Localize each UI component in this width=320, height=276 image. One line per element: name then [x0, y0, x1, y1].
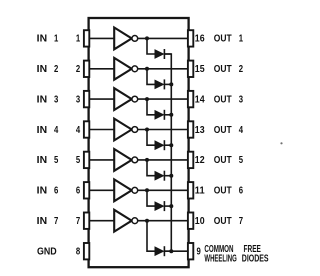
pin 7 bracket (left) [84, 213, 89, 229]
svg-text:1: 1 [54, 34, 59, 45]
junction node on OUT 3 wire [145, 97, 149, 101]
inverter (darlington driver) U4 [114, 119, 138, 141]
svg-text:2: 2 [239, 64, 244, 75]
wire: node down to diode D3 anode [147, 99, 155, 115]
pin number 13 label [195, 125, 205, 136]
wire: node down to diode D5 anode [147, 160, 155, 176]
svg-text:OUT: OUT [214, 64, 232, 75]
pin 13 bracket (right) [188, 121, 193, 137]
pin 12 bracket (right) [188, 152, 193, 168]
junction node on OUT 6 wire [145, 188, 149, 192]
wire: D5 cathode to common bus [164, 175, 171, 177]
wire: U6 output to pin 11 [138, 189, 189, 191]
svg-text:3: 3 [76, 94, 81, 105]
svg-text:14: 14 [195, 94, 205, 105]
svg-text:4: 4 [76, 125, 81, 136]
inverter (darlington driver) U1 [114, 28, 138, 50]
net label OUT 1 [214, 34, 244, 45]
wire: U1 output to pin 16 [138, 37, 189, 39]
junction node on OUT 2 wire [145, 67, 149, 71]
wire: D7 cathode / bus to pin 9 [164, 250, 188, 252]
inverter (darlington driver) U6 [114, 179, 138, 201]
svg-text:OUT: OUT [214, 216, 232, 227]
svg-text:OUT: OUT [214, 34, 232, 45]
net label OUT 5 [214, 155, 244, 166]
svg-text:1: 1 [239, 34, 244, 45]
pin number 7 label [76, 216, 81, 227]
net label IN 3 [37, 94, 59, 105]
wire: D7 cathode to common bus [164, 250, 171, 252]
wire: node down to diode D4 anode [147, 130, 155, 146]
junction node on common bus at D3 [169, 113, 173, 117]
pin number 10 label [195, 216, 205, 227]
wire: pin 6 to inverter U6 input [89, 189, 115, 191]
wire: U2 output to pin 15 [138, 68, 189, 70]
wire: U5 output to pin 12 [138, 159, 189, 161]
pin number 16 label [195, 34, 205, 45]
pin 9 bracket (right) [188, 243, 193, 259]
net label IN 1 [37, 34, 59, 45]
wire: D1 cathode to common bus [164, 53, 171, 55]
svg-text:4: 4 [239, 125, 244, 136]
freewheeling diode D7 [155, 246, 164, 256]
junction node on common bus at D5 [169, 174, 173, 178]
pin 3 bracket (left) [84, 91, 89, 107]
freewheeling diode D1 [155, 49, 164, 59]
svg-text:6: 6 [239, 186, 244, 197]
inverter (darlington driver) U2 [114, 58, 138, 80]
net label OUT 4 [214, 125, 244, 136]
pin number 11 label [195, 186, 205, 197]
pin 5 bracket (left) [84, 152, 89, 168]
scan speck [280, 142, 282, 144]
wire: D2 cathode to common bus [164, 83, 171, 85]
IC body outline U1 (DIP-16) [89, 18, 189, 267]
svg-text:9: 9 [197, 247, 202, 258]
wire: node down to diode D6 anode [147, 190, 155, 206]
svg-text:2: 2 [76, 64, 81, 75]
net label OUT 7 [214, 216, 244, 227]
net label IN 5 [37, 155, 59, 166]
svg-text:7: 7 [54, 216, 59, 227]
pin 6 bracket (left) [84, 182, 89, 198]
pin 10 bracket (right) [188, 213, 193, 229]
junction node on common bus at D2 [169, 82, 173, 86]
junction node on common bus at D4 [169, 143, 173, 147]
net label IN 2 [37, 64, 59, 75]
svg-text:15: 15 [195, 64, 205, 75]
svg-text:11: 11 [195, 186, 205, 197]
junction node on OUT 1 wire [145, 36, 149, 40]
svg-text:3: 3 [239, 94, 244, 105]
pin number 5 label [76, 155, 81, 166]
pin number 2 label [76, 64, 81, 75]
wire: pin 4 to inverter U4 input [89, 129, 115, 131]
freewheeling diode D6 [155, 201, 164, 211]
junction node on OUT 5 wire [145, 158, 149, 162]
wire: D3 cathode to common bus [164, 114, 171, 116]
pin number 9 label [197, 247, 202, 258]
wire: pin 7 to inverter U7 input [89, 220, 115, 222]
svg-text:5: 5 [54, 155, 59, 166]
wire: node down to diode D1 anode [147, 38, 155, 54]
pin number 4 label [76, 125, 81, 136]
svg-text:16: 16 [195, 34, 205, 45]
pin number 3 label [76, 94, 81, 105]
net label OUT 6 [214, 186, 244, 197]
svg-text:10: 10 [195, 216, 205, 227]
wire: U7 output to pin 10 [138, 220, 189, 222]
wire: node down to diode D7 anode [147, 221, 155, 252]
inverter (darlington driver) U5 [114, 149, 138, 171]
freewheeling diode D5 [155, 171, 164, 181]
net label IN 7 [37, 216, 59, 227]
svg-text:IN: IN [37, 94, 47, 105]
pin 15 bracket (right) [188, 61, 193, 77]
pin 16 bracket (right) [188, 30, 193, 46]
pin 8 bracket (left) [84, 243, 89, 259]
svg-text:6: 6 [54, 186, 59, 197]
pin 2 bracket (left) [84, 61, 89, 77]
wire: pin 2 to inverter U2 input [89, 68, 115, 70]
net label GND [37, 247, 57, 258]
svg-text:IN: IN [37, 125, 47, 136]
pin 4 bracket (left) [84, 121, 89, 137]
freewheeling diode D4 [155, 140, 164, 150]
svg-text:OUT: OUT [214, 155, 232, 166]
svg-text:8: 8 [76, 247, 81, 258]
wire: D4 cathode to common bus [164, 144, 171, 146]
junction node: bus to pin 9 wire [169, 249, 173, 253]
svg-text:4: 4 [54, 125, 59, 136]
pin 11 bracket (right) [188, 182, 193, 198]
net label IN 4 [37, 125, 59, 136]
wire: common freewheeling-diode bus (vertical) [164, 54, 171, 251]
svg-text:12: 12 [195, 155, 205, 166]
svg-text:6: 6 [76, 186, 81, 197]
pin number 14 label [195, 94, 205, 105]
junction node on OUT 7 wire [145, 219, 149, 223]
svg-text:7: 7 [239, 216, 244, 227]
svg-text:OUT: OUT [214, 125, 232, 136]
freewheeling diode D2 [155, 79, 164, 89]
net label OUT 3 [214, 94, 244, 105]
net label IN 6 [37, 186, 59, 197]
inverter (darlington driver) U3 [114, 88, 138, 110]
svg-text:IN: IN [37, 186, 47, 197]
net label COMMON FREE WHEELING DIODES [204, 244, 268, 264]
wire: U3 output to pin 14 [138, 98, 189, 100]
wire: pin 1 to inverter U1 input [89, 37, 115, 39]
net label OUT 2 [214, 64, 244, 75]
svg-text:3: 3 [54, 94, 59, 105]
wire: U4 output to pin 13 [138, 129, 189, 131]
freewheeling diode D3 [155, 110, 164, 120]
pin number 8 label [76, 247, 81, 258]
svg-text:GND: GND [37, 247, 57, 258]
wire: D6 cathode to common bus [164, 205, 171, 207]
svg-text:IN: IN [37, 64, 47, 75]
pin number 1 label [76, 34, 81, 45]
svg-text:1: 1 [76, 34, 81, 45]
svg-text:7: 7 [76, 216, 81, 227]
svg-text:IN: IN [37, 155, 47, 166]
junction node on OUT 4 wire [145, 128, 149, 132]
pin number 15 label [195, 64, 205, 75]
svg-text:13: 13 [195, 125, 205, 136]
pin 1 bracket (left) [84, 30, 89, 46]
svg-text:WHEELING: WHEELING [204, 253, 237, 264]
svg-text:5: 5 [76, 155, 81, 166]
wire: pin 3 to inverter U3 input [89, 98, 115, 100]
pin number 12 label [195, 155, 205, 166]
svg-text:OUT: OUT [214, 186, 232, 197]
svg-text:5: 5 [239, 155, 244, 166]
pin number 6 label [76, 186, 81, 197]
wire: pin 5 to inverter U5 input [89, 159, 115, 161]
inverter (darlington driver) U7 [114, 210, 138, 232]
junction node on common bus at D6 [169, 204, 173, 208]
svg-text:IN: IN [37, 216, 47, 227]
svg-text:OUT: OUT [214, 94, 232, 105]
pin 14 bracket (right) [188, 91, 193, 107]
svg-text:DIODES: DIODES [242, 253, 269, 264]
wire: node down to diode D2 anode [147, 69, 155, 85]
svg-text:2: 2 [54, 64, 59, 75]
svg-text:IN: IN [37, 34, 47, 45]
